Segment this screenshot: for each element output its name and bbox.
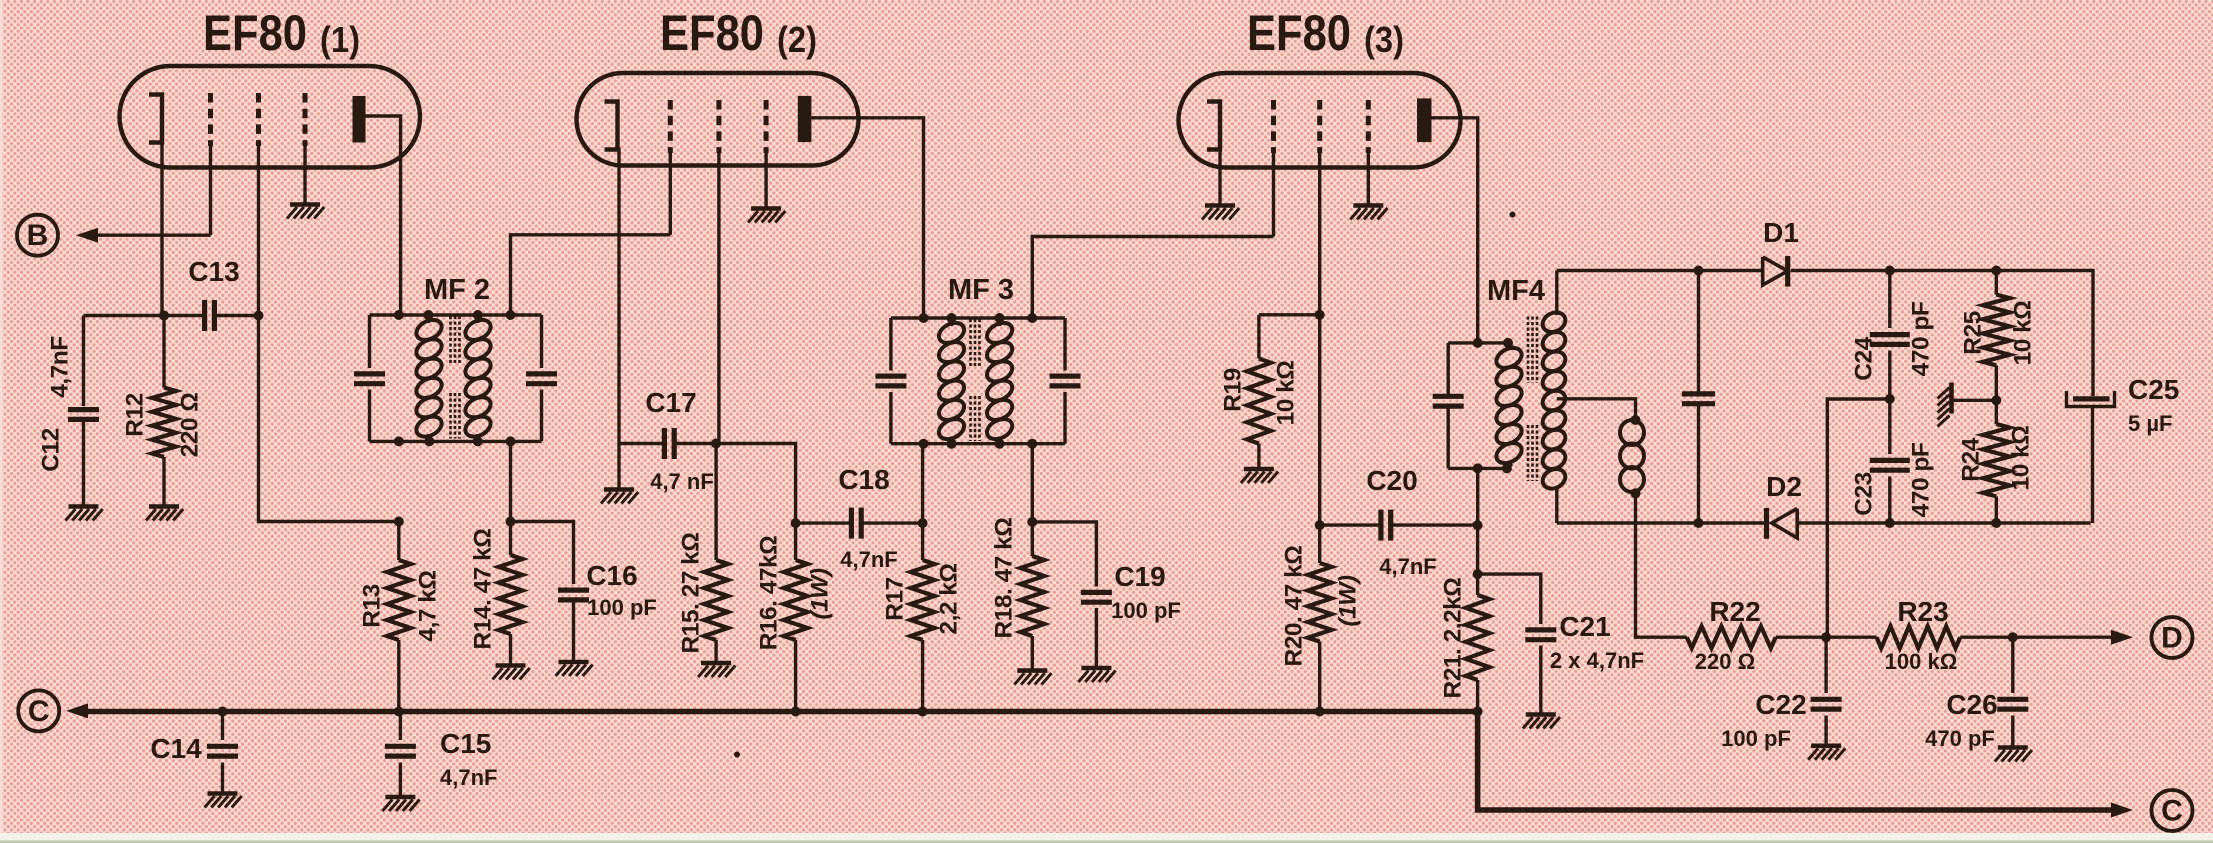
svg-text:(2): (2) <box>777 19 817 60</box>
MF4 tertiary tap wire <box>1557 399 1636 420</box>
svg-text:C22: C22 <box>1755 689 1806 720</box>
terminal B <box>17 215 58 256</box>
svg-text:D: D <box>2161 622 2183 655</box>
ground under C14 <box>205 794 242 808</box>
resistor R18 <box>1020 522 1044 671</box>
MF4 primary bottom rail <box>1448 467 1508 470</box>
MF3 junction dots <box>919 313 1038 449</box>
svg-text:R16. 47kΩ: R16. 47kΩ <box>756 536 783 651</box>
C rail junction dots <box>218 707 1483 717</box>
MF2 primary tuning capacitor <box>354 315 385 441</box>
ground under R12 <box>146 507 183 521</box>
resistor R16 <box>784 523 808 712</box>
capacitor C22 <box>1811 637 1842 746</box>
svg-text:C13: C13 <box>188 256 239 287</box>
ground under grid3 V2 <box>748 209 785 223</box>
MF2 primary winding <box>413 315 445 441</box>
MF4 secondary bottom rail to D2 <box>1557 521 1767 524</box>
ground at cathode V2 <box>601 444 638 504</box>
MF3 secondary winding <box>984 318 1016 444</box>
node C18 left <box>791 518 801 528</box>
MF2 core <box>451 316 460 439</box>
capacitor C15 <box>385 712 416 798</box>
svg-text:4,7nF: 4,7nF <box>47 336 74 398</box>
ground under C16 <box>556 662 593 676</box>
resistor R17 <box>911 444 935 712</box>
MF2 secondary tuning capacitor <box>526 315 557 441</box>
svg-text:4,7 nF: 4,7 nF <box>650 469 714 494</box>
label EF80 (2) <box>660 5 817 61</box>
node D output junction <box>2008 632 2018 642</box>
svg-text:470 pF: 470 pF <box>1908 301 1935 376</box>
capacitor C24 <box>1870 271 1910 400</box>
svg-text:(1W): (1W) <box>807 568 834 619</box>
svg-text:MF4: MF4 <box>1487 275 1545 307</box>
tube EF80(2) <box>577 73 859 166</box>
tube EF80(1) <box>120 66 421 168</box>
svg-text:R17: R17 <box>882 577 909 620</box>
MF4 primary tuning capacitor <box>1433 343 1464 469</box>
MF3 core <box>971 319 980 441</box>
grid2 lead V2 down to C17 node <box>717 150 720 444</box>
plate lead V1 to MF2 <box>366 116 401 315</box>
resistor R14 <box>499 522 523 666</box>
svg-text:100 pF: 100 pF <box>587 595 657 620</box>
resistor R21 <box>1466 525 1490 712</box>
stray ink speck 2 <box>1510 212 1516 218</box>
svg-text:4,7nF: 4,7nF <box>440 765 497 790</box>
plate lead V3 to MF4 <box>1432 118 1478 343</box>
capacitor C20 <box>1320 510 1478 541</box>
node R13 top <box>394 517 404 527</box>
svg-text:R14. 47 kΩ: R14. 47 kΩ <box>470 529 497 650</box>
resistor R22 <box>1687 626 1826 648</box>
MF3 primary bottom rail <box>891 442 1065 445</box>
ground under R19 <box>1241 469 1278 483</box>
wire MF3 secondary to grid1 V3 <box>1032 237 1273 319</box>
svg-text:R12: R12 <box>122 393 149 436</box>
resistor R25 <box>1983 271 2010 401</box>
capacitor C12 <box>68 316 99 507</box>
ground under grid3 V3 <box>1350 206 1387 220</box>
svg-text:470 pF: 470 pF <box>1908 442 1935 517</box>
ground under C26 <box>1995 748 2032 762</box>
svg-text:100 pF: 100 pF <box>1111 598 1181 623</box>
MF3 primary top rail <box>891 316 1065 319</box>
wire to terminal D with arrowhead <box>2013 630 2133 645</box>
detector bottom line dots <box>1885 518 2002 528</box>
grid3 lead V3 <box>1367 150 1370 206</box>
MF4 core <box>1528 317 1537 482</box>
svg-text:C23: C23 <box>1851 472 1878 515</box>
svg-text:D1: D1 <box>1763 217 1799 248</box>
wire B to grid1 V1 with arrowhead <box>76 228 211 243</box>
svg-text:220 Ω: 220 Ω <box>1695 649 1755 674</box>
MF4 feed-through wire <box>1476 468 1479 525</box>
MF3 primary tuning capacitor <box>875 318 906 444</box>
wire MF3 secondary bottom to R18 node <box>1031 444 1034 522</box>
MF4 tertiary winding <box>1620 415 1644 498</box>
node R24 R25 mid <box>1991 395 2001 405</box>
capacitor C17 <box>619 428 716 459</box>
resistor R13 <box>387 522 411 713</box>
ground under cathode V3 <box>1202 206 1239 220</box>
node R18 top <box>1027 517 1037 527</box>
wire MF2 secondary to grid1 V2 <box>511 235 671 315</box>
node R21 top C21 link <box>1473 569 1483 579</box>
grid1 lead V1 <box>209 146 212 235</box>
capacitor C14 <box>207 712 238 794</box>
node screen V1 <box>254 311 264 321</box>
svg-text:C12: C12 <box>38 428 65 471</box>
ground under C22 <box>1808 746 1845 760</box>
wire screen node to R16 corner <box>716 444 796 524</box>
node C18 right <box>918 518 928 528</box>
node screen V2 <box>711 439 721 449</box>
capacitor C18 <box>796 508 923 539</box>
svg-text:4,7nF: 4,7nF <box>840 547 897 572</box>
svg-text:EF80: EF80 <box>660 5 764 61</box>
detector bottom line D2 to C25 <box>1797 521 2090 524</box>
MF2 primary top rail <box>370 313 542 316</box>
svg-text:R20. 47 kΩ: R20. 47 kΩ <box>1281 546 1308 667</box>
terminal C right <box>2152 790 2193 831</box>
svg-text:C24: C24 <box>1851 336 1878 380</box>
tube EF80(3) <box>1179 73 1461 168</box>
svg-text:10 kΩ: 10 kΩ <box>1273 361 1300 426</box>
svg-text:C25: C25 <box>2128 374 2179 405</box>
svg-text:C: C <box>28 695 50 728</box>
resistor R24 <box>1983 400 2010 523</box>
C rail heavy line with arrowhead <box>66 703 2133 817</box>
svg-text:2,2 kΩ: 2,2 kΩ <box>936 563 963 634</box>
ground under R18 <box>1014 671 1051 685</box>
capacitor C19 <box>1032 522 1112 668</box>
stray ink speck 1 <box>734 752 740 758</box>
grid3 lead V2 <box>764 150 767 209</box>
resistor R20 <box>1308 525 1332 712</box>
svg-text:10 kΩ: 10 kΩ <box>2008 426 2035 491</box>
capacitor C13 <box>164 300 259 331</box>
svg-text:R15. 27 kΩ: R15. 27 kΩ <box>678 533 705 654</box>
ground under R15 <box>698 663 735 677</box>
resistor R23 <box>1826 626 2013 648</box>
svg-text:C15: C15 <box>440 728 491 759</box>
svg-text:470 pF: 470 pF <box>1925 726 1995 751</box>
node R19 link <box>1315 310 1325 320</box>
bottom scan edge white strip <box>0 833 2213 843</box>
MF2 primary bottom rail <box>370 440 542 443</box>
terminal C left <box>18 690 59 731</box>
left scan edge light strip <box>0 0 3 843</box>
svg-text:10 kΩ: 10 kΩ <box>2010 301 2037 366</box>
svg-text:R24: R24 <box>1958 437 1985 481</box>
svg-text:(1W): (1W) <box>1335 575 1362 626</box>
ground under C19 <box>1078 668 1115 682</box>
chassis ground at detector mid <box>1938 383 1997 427</box>
node C20 right <box>1473 520 1483 530</box>
resistor R19 <box>1247 315 1271 469</box>
cathode lead V3 <box>1218 150 1221 206</box>
svg-text:R21. 2,2kΩ: R21. 2,2kΩ <box>1440 578 1467 699</box>
grid2 lead V1 down to screen node <box>257 146 260 316</box>
svg-text:C14: C14 <box>150 733 202 764</box>
svg-text:4,7 kΩ: 4,7 kΩ <box>415 570 442 641</box>
diode D1 <box>1763 256 1788 287</box>
svg-text:C18: C18 <box>838 464 889 495</box>
resistor R15 <box>704 444 728 664</box>
wire detector mid to audio node <box>1827 399 1890 637</box>
svg-text:C17: C17 <box>645 387 696 418</box>
plate lead V2 to MF3 <box>811 118 923 318</box>
label EF80 (3) <box>1247 5 1404 61</box>
detector top line D1 to C25 <box>1791 271 2093 397</box>
wire R19 link <box>1259 313 1320 316</box>
node audio junction <box>1821 632 1831 642</box>
MF3 secondary tuning capacitor <box>1050 318 1081 444</box>
MF4 primary junction dots <box>1473 338 1513 474</box>
svg-text:C26: C26 <box>1946 689 1997 720</box>
svg-text:100 kΩ: 100 kΩ <box>1885 649 1958 674</box>
detector top line dots <box>1885 266 2002 276</box>
grid1 lead V3 <box>1272 150 1275 237</box>
MF4 primary winding <box>1493 343 1525 469</box>
node AGC stage2 <box>506 517 516 527</box>
MF4 secondary tuning capacitor <box>1682 271 1715 524</box>
svg-text:B: B <box>27 219 49 252</box>
svg-text:R25: R25 <box>1960 311 1987 354</box>
capacitor C16 <box>511 522 590 663</box>
svg-text:C21: C21 <box>1559 611 1610 642</box>
svg-text:C19: C19 <box>1114 561 1165 592</box>
svg-text:C20: C20 <box>1366 465 1417 496</box>
svg-text:R18. 47 kΩ: R18. 47 kΩ <box>991 518 1018 639</box>
MF4 secondary cap dots <box>1694 266 1704 529</box>
svg-text:R13: R13 <box>359 584 386 627</box>
MF4 primary top rail <box>1448 341 1508 344</box>
svg-text:C16: C16 <box>586 560 637 591</box>
cathode lead V1 to bias node <box>160 143 163 316</box>
diode D2 <box>1767 508 1798 539</box>
electrolytic capacitor C25 <box>2067 391 2115 523</box>
wire screen V1 down and right to R13 <box>259 316 399 522</box>
ground under C15 <box>382 797 419 811</box>
svg-text:220 Ω: 220 Ω <box>177 393 204 458</box>
MF3 primary winding <box>936 318 968 444</box>
capacitor C26 <box>1997 637 2028 747</box>
ground under C21 <box>1523 715 1560 729</box>
svg-text:(3): (3) <box>1364 19 1404 60</box>
ground under R14 <box>493 666 530 680</box>
MF4 secondary top rail to D1 <box>1557 269 1763 272</box>
svg-text:R19: R19 <box>1220 368 1247 411</box>
svg-text:D2: D2 <box>1766 471 1802 502</box>
svg-text:4,7nF: 4,7nF <box>1379 554 1436 579</box>
wire cathode node to C12 <box>84 314 165 317</box>
svg-text:EF80: EF80 <box>203 5 307 61</box>
label EF80 (1) <box>203 5 360 61</box>
ground under C12 <box>66 507 103 521</box>
node detector mid <box>1885 394 1895 404</box>
grid2 lead V3 down to C20 <box>1318 150 1321 525</box>
cathode lead V2 <box>617 148 620 444</box>
svg-text:MF 3: MF 3 <box>948 274 1014 306</box>
svg-text:R22: R22 <box>1709 596 1760 627</box>
terminal D <box>2152 617 2193 658</box>
capacitor C21 <box>1478 574 1557 714</box>
grid3 lead V1 <box>303 146 306 205</box>
MF2 secondary winding <box>462 315 494 441</box>
wire MF2 secondary bottom to AGC node <box>509 441 512 521</box>
MF4 secondary winding <box>1539 271 1568 524</box>
grid1 lead V2 <box>669 150 672 235</box>
svg-text:2 x 4,7nF: 2 x 4,7nF <box>1550 648 1644 673</box>
svg-text:100 pF: 100 pF <box>1721 726 1791 751</box>
ground under grid3 V1 <box>287 205 324 219</box>
node cathode bias V1 <box>159 311 169 321</box>
svg-text:C: C <box>2161 795 2183 828</box>
wire tertiary to R22 <box>1636 493 1687 637</box>
MF2 junction dots <box>394 310 516 446</box>
svg-text:EF80: EF80 <box>1247 5 1351 61</box>
node C20 left <box>1315 520 1325 530</box>
svg-text:(1): (1) <box>320 19 360 60</box>
capacitor C23 <box>1870 399 1910 523</box>
resistor R12 <box>152 316 176 507</box>
svg-text:MF 2: MF 2 <box>424 274 490 306</box>
svg-text:R23: R23 <box>1897 596 1948 627</box>
svg-text:5 µF: 5 µF <box>2128 411 2172 436</box>
